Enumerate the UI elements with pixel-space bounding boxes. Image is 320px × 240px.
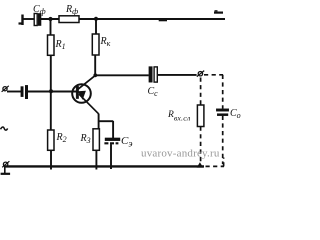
svg-text:uvarov-andrey.ru: uvarov-andrey.ru bbox=[141, 147, 220, 159]
svg-text:Cэ: Cэ bbox=[121, 135, 133, 150]
svg-text:Rф: Rф bbox=[65, 4, 78, 16]
svg-text:Cо: Cо bbox=[230, 108, 241, 120]
svg-text:Rвх.сл: Rвх.сл bbox=[167, 110, 191, 122]
svg-text:R3: R3 bbox=[80, 133, 91, 145]
svg-text:R1: R1 bbox=[55, 39, 66, 51]
svg-text:Rк: Rк bbox=[100, 36, 111, 48]
svg-text:Cс: Cс bbox=[148, 86, 159, 98]
svg-text:Cф: Cф bbox=[33, 4, 46, 16]
svg-text:R2: R2 bbox=[56, 132, 67, 144]
